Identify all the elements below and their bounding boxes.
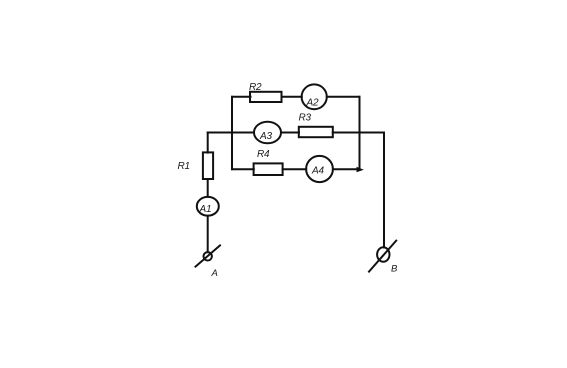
wire left leg down from middle branch to R1 bbox=[207, 133, 209, 153]
wire A3 to R3 bbox=[281, 132, 299, 134]
wire R1 to A1 bbox=[207, 179, 209, 196]
resistor R3 bbox=[299, 127, 333, 137]
wire right node vertical bbox=[359, 97, 361, 169]
svg-text:A3: A3 bbox=[259, 131, 272, 142]
svg-text:R4: R4 bbox=[257, 149, 270, 160]
svg-text:A2: A2 bbox=[306, 98, 319, 109]
terminal A diagonal stroke bbox=[196, 245, 221, 266]
wire R3 to right corner (crosses right node line) bbox=[333, 132, 384, 134]
svg-text:B: B bbox=[391, 264, 398, 275]
wire top branch left segment bbox=[232, 96, 251, 98]
wire R4 to A4 bbox=[283, 168, 307, 170]
svg-text:A4: A4 bbox=[311, 166, 324, 177]
svg-text:R1: R1 bbox=[178, 161, 190, 172]
terminal A circle bbox=[204, 252, 212, 260]
terminal B circle bbox=[377, 247, 389, 262]
resistor R4 bbox=[254, 163, 283, 175]
resistor R2 bbox=[250, 92, 282, 102]
wire bottom branch left segment bbox=[232, 168, 254, 170]
ammeter A2 bbox=[302, 84, 327, 109]
junction tick at right node / bottom branch corner bbox=[357, 167, 364, 172]
wire middle branch left segment bbox=[208, 132, 254, 134]
wire right leg down to terminal B bbox=[383, 133, 385, 248]
ammeter A3 bbox=[254, 122, 281, 144]
terminal B diagonal stroke bbox=[369, 241, 396, 272]
wire left node vertical (joins top, middle, bottom branches) bbox=[231, 97, 233, 169]
svg-text:A1: A1 bbox=[199, 204, 212, 215]
ammeter A4 bbox=[306, 156, 333, 182]
wire A4 to right node bbox=[333, 168, 360, 170]
wire R2 to A2 bbox=[282, 96, 302, 98]
svg-text:R2: R2 bbox=[249, 82, 262, 93]
svg-text:A: A bbox=[211, 268, 218, 279]
wire A2 to right node bbox=[327, 96, 360, 98]
svg-text:R3: R3 bbox=[299, 113, 312, 124]
wire A1 to terminal A bbox=[207, 216, 209, 252]
ammeter A1 bbox=[197, 197, 219, 216]
resistor R1 bbox=[203, 152, 213, 179]
